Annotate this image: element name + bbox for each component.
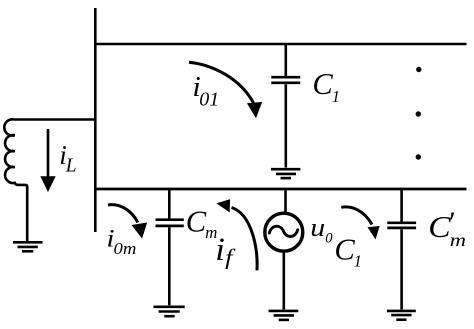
svg-text:0m: 0m <box>114 239 137 258</box>
svg-text:u: u <box>310 214 325 243</box>
wire: middle horizontal bus <box>94 188 467 191</box>
svg-text:L: L <box>65 156 77 177</box>
svg-text:m: m <box>450 231 466 250</box>
capacitor C1 <box>271 44 300 168</box>
wire: source top lead <box>284 189 287 214</box>
capacitor Cm <box>156 189 184 305</box>
inductor L <box>4 119 27 242</box>
wire: inductor top wire <box>14 118 95 121</box>
capacitor C'm <box>387 189 416 310</box>
svg-text:01: 01 <box>199 88 219 110</box>
ground (inductor) <box>13 242 43 251</box>
ground (C1) <box>271 169 300 178</box>
svg-text:C: C <box>334 233 355 267</box>
ground (C'm) <box>387 311 416 320</box>
svg-text:0: 0 <box>325 230 333 246</box>
node dots (vertical ellipsis) <box>416 67 421 72</box>
svg-text:1: 1 <box>332 87 340 106</box>
arrow i_L <box>47 129 50 178</box>
arrow i_f <box>232 208 258 271</box>
svg-text:f: f <box>225 246 236 270</box>
svg-text:i: i <box>215 232 225 268</box>
svg-text:1: 1 <box>354 252 363 271</box>
arrow i_01 <box>189 62 254 103</box>
ground (u0) <box>269 311 299 320</box>
svg-text:C: C <box>186 205 207 239</box>
source u0 (AC) <box>265 213 303 251</box>
wire: top horizontal bus <box>94 43 467 45</box>
ground (Cm) <box>154 307 185 316</box>
wire: left vertical bus <box>94 8 97 232</box>
svg-text:C: C <box>312 67 333 101</box>
wire: source bottom lead <box>282 251 285 309</box>
arrow (current into C'm branch) <box>341 207 372 225</box>
arrow i_0m <box>108 205 138 223</box>
